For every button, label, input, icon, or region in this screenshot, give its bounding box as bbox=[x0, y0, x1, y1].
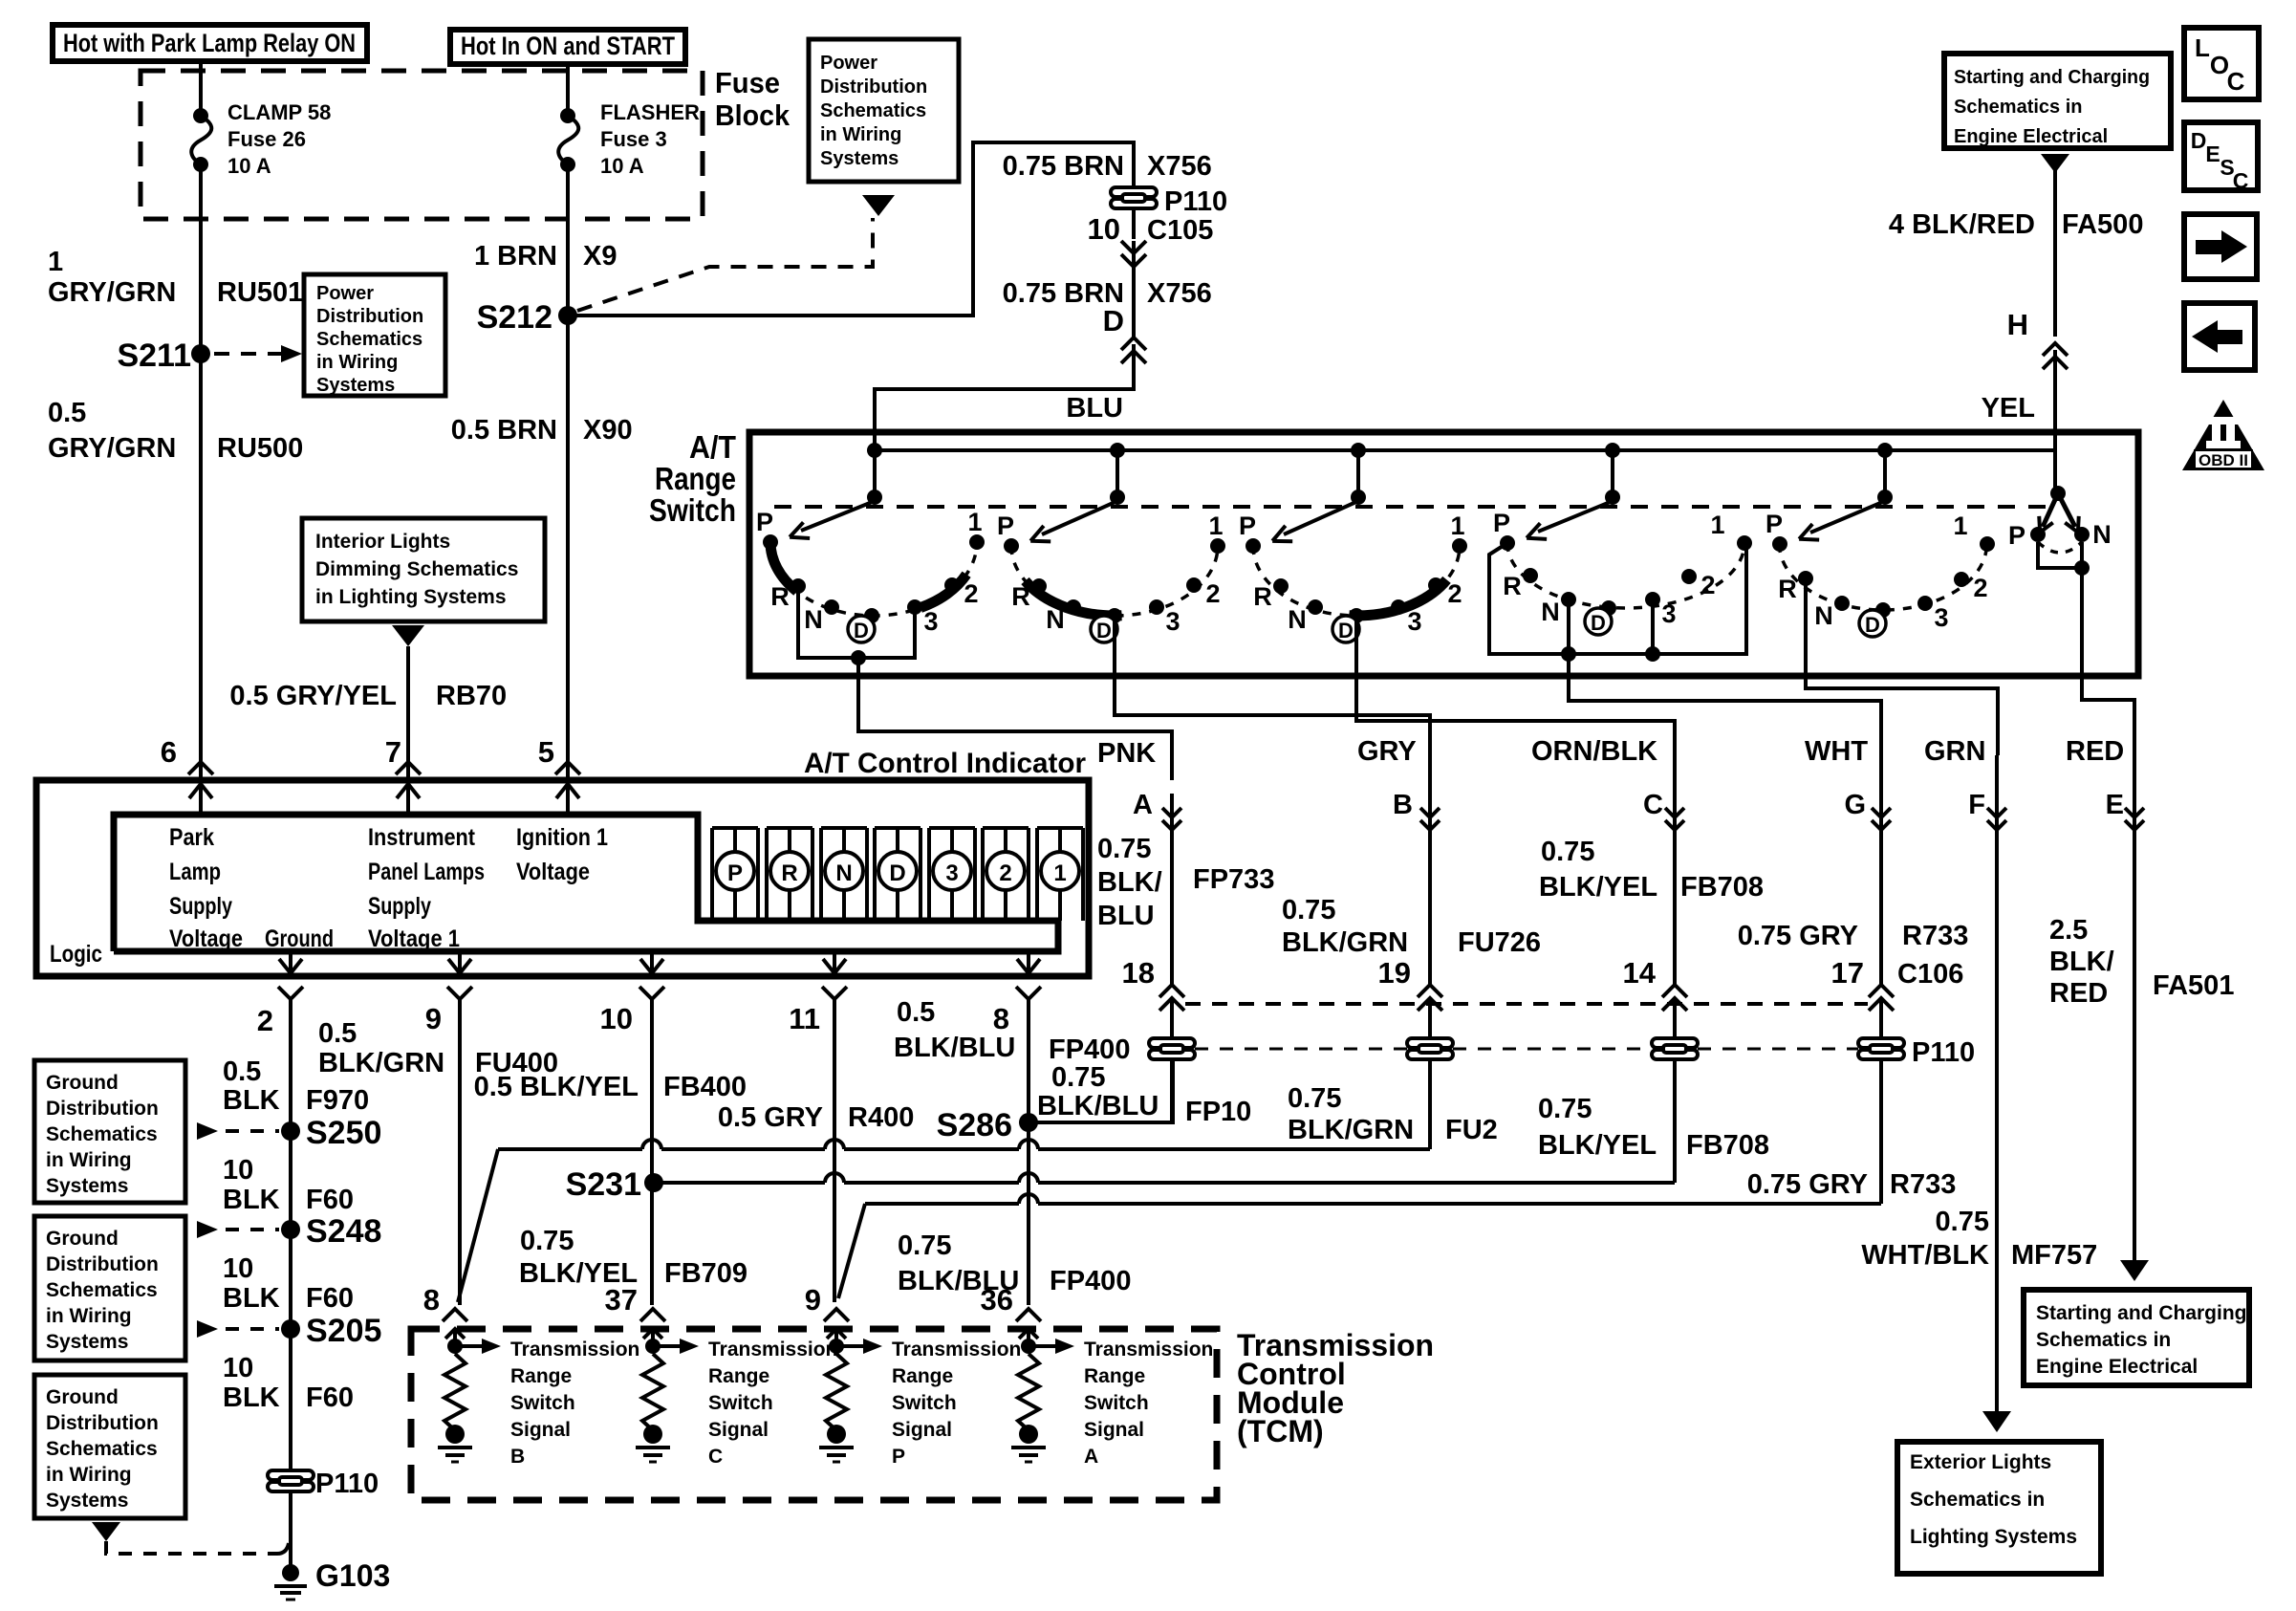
label 0.5 BLK F970 bbox=[223, 1056, 369, 1116]
wire X756 through C105 bbox=[1132, 208, 1136, 239]
svg-text:9: 9 bbox=[425, 1002, 442, 1035]
svg-text:S205: S205 bbox=[306, 1313, 381, 1349]
wire to ground G103 bbox=[289, 1491, 292, 1573]
wire FB708 0.75 BLK/YEL (pin C down to C106) bbox=[1673, 755, 1677, 985]
TCM pin 9 terminal chevron bbox=[824, 1309, 849, 1321]
svg-text:FP10: FP10 bbox=[1185, 1097, 1251, 1127]
svg-text:B: B bbox=[1393, 790, 1413, 820]
pin 2 output arrow bbox=[289, 951, 292, 973]
svg-text:0.75: 0.75 bbox=[1538, 1094, 1592, 1124]
TCM input arrow pin 8 bbox=[453, 1331, 457, 1346]
fuse FLASHER Fuse 3 10A bbox=[558, 116, 578, 164]
svg-text:6: 6 bbox=[161, 735, 177, 769]
svg-text:R: R bbox=[1253, 582, 1272, 611]
svg-text:2.5: 2.5 bbox=[2049, 915, 2088, 946]
svg-text:Switch: Switch bbox=[510, 1392, 575, 1414]
wire from switch 1 to pin A bbox=[858, 678, 1172, 780]
svg-text:Instrument: Instrument bbox=[368, 824, 476, 851]
dashed reference line from S212 to Power Distribution box (top) bbox=[577, 218, 873, 311]
in-line connector chevrons above BLU bbox=[1121, 337, 1146, 350]
svg-text:0.5 BLK/YEL: 0.5 BLK/YEL bbox=[474, 1072, 639, 1102]
resistor (pull) pin 36 bbox=[1018, 1354, 1039, 1430]
svg-text:Range: Range bbox=[510, 1365, 572, 1387]
label 10 BLK F60 (2) bbox=[223, 1253, 354, 1314]
svg-text:in Wiring: in Wiring bbox=[46, 1149, 132, 1171]
bulkhead connector P110 on X756 bbox=[1111, 187, 1157, 208]
TCM input arrow pin 37 bbox=[651, 1331, 655, 1346]
wire X90 0.5 BRN (S212 down to indicator pin 5) bbox=[566, 316, 570, 780]
svg-text:Schematics: Schematics bbox=[820, 100, 926, 121]
svg-text:F970: F970 bbox=[306, 1085, 369, 1116]
legend box LOC bbox=[2184, 28, 2259, 99]
pin 8 output arrow bbox=[1027, 951, 1030, 973]
TCM pin 8 terminal chevron bbox=[443, 1309, 467, 1321]
svg-text:BLK/: BLK/ bbox=[2049, 947, 2114, 977]
signal tap arrow pin 36 bbox=[1021, 1339, 1036, 1354]
svg-text:P: P bbox=[892, 1446, 905, 1468]
svg-text:P110: P110 bbox=[1164, 186, 1227, 217]
svg-text:FB709: FB709 bbox=[664, 1258, 747, 1289]
svg-text:Schematics: Schematics bbox=[46, 1123, 158, 1145]
svg-text:Ground: Ground bbox=[46, 1386, 119, 1408]
pin 9 output arrow bbox=[458, 951, 462, 973]
svg-text:N: N bbox=[835, 860, 852, 886]
svg-text:G: G bbox=[1844, 790, 1866, 820]
wire FP10 0.75 BLK/BLU (S286 to P110 riser) bbox=[1029, 1058, 1173, 1122]
pin 6 terminal chevron bbox=[188, 762, 213, 774]
svg-text:P110: P110 bbox=[1912, 1037, 1975, 1068]
wire FU726 0.75 BLK/GRN (pin B down to C106) bbox=[1428, 755, 1432, 985]
svg-text:9: 9 bbox=[805, 1283, 821, 1317]
svg-text:P: P bbox=[1239, 512, 1256, 540]
wire from Hot In feed into fuse block (right) bbox=[566, 61, 570, 116]
pin 8 terminal chevron bbox=[1016, 987, 1041, 999]
dashed reference arrow to S205 bbox=[197, 1320, 218, 1338]
svg-text:R400: R400 bbox=[848, 1102, 914, 1133]
label Park Lamp Supply Voltage bbox=[169, 824, 243, 952]
svg-text:GRN: GRN bbox=[1924, 736, 1985, 767]
svg-text:Schematics in: Schematics in bbox=[2036, 1329, 2171, 1351]
wire RB70 0.5 GRY/YEL (down to indicator pin 7) bbox=[406, 646, 410, 780]
label Transmission Range Switch Signal B bbox=[510, 1339, 639, 1468]
reference arrow into Power Distribution box (top) bbox=[862, 195, 895, 216]
svg-text:0.75: 0.75 bbox=[1051, 1062, 1105, 1093]
splice S212 bbox=[558, 306, 577, 325]
svg-text:2: 2 bbox=[257, 1004, 273, 1037]
splice S231 bbox=[644, 1173, 663, 1192]
bulkhead connector P110 on ground wire bbox=[268, 1470, 314, 1491]
connector C106 chevron pin 18 bbox=[1159, 985, 1184, 997]
pin 10 output arrow bbox=[650, 951, 654, 973]
svg-text:A: A bbox=[1084, 1446, 1098, 1468]
svg-text:Ground: Ground bbox=[265, 925, 334, 952]
svg-text:BLK: BLK bbox=[223, 1283, 280, 1314]
label A/T Range Switch bbox=[649, 429, 736, 528]
svg-text:RU501: RU501 bbox=[217, 277, 303, 308]
label 1 GRY/GRN RU501 bbox=[48, 247, 303, 308]
A/T Control Indicator outer box bbox=[36, 780, 1089, 976]
svg-text:S248: S248 bbox=[306, 1213, 381, 1250]
svg-text:11: 11 bbox=[789, 1002, 820, 1035]
svg-text:P: P bbox=[2008, 521, 2025, 550]
label Transmission Range Switch Signal C bbox=[708, 1339, 837, 1468]
TCM internal ground pin 9 bbox=[827, 1425, 846, 1444]
pin 11 terminal chevron bbox=[822, 987, 847, 999]
svg-text:14: 14 bbox=[1623, 956, 1657, 990]
reference arrow from Ground box 3 bbox=[92, 1522, 120, 1541]
svg-text:YEL: YEL bbox=[1982, 393, 2035, 424]
svg-text:0.75: 0.75 bbox=[1288, 1083, 1341, 1114]
splice S211 bbox=[191, 344, 210, 363]
label 0.75 GRY R733 (pin G) bbox=[1738, 921, 1969, 951]
Transmission Control Module dashed box bbox=[411, 1329, 1217, 1500]
svg-text:0.75 BRN: 0.75 BRN bbox=[1003, 151, 1124, 182]
svg-text:Switch: Switch bbox=[649, 492, 736, 528]
svg-text:Block: Block bbox=[715, 98, 791, 132]
svg-text:19: 19 bbox=[1378, 956, 1411, 990]
label 0.5 BLK/BLU FP400 bbox=[894, 997, 1130, 1065]
svg-text:R: R bbox=[1503, 572, 1522, 600]
svg-text:10 A: 10 A bbox=[600, 154, 644, 178]
svg-text:Transmission: Transmission bbox=[1084, 1339, 1213, 1361]
svg-text:Hot with Park Lamp Relay ON: Hot with Park Lamp Relay ON bbox=[63, 29, 356, 57]
svg-text:N: N bbox=[1541, 598, 1560, 626]
indicator logic inner box bbox=[114, 815, 1058, 951]
svg-text:Transmission: Transmission bbox=[510, 1339, 639, 1361]
connector C106 chevron pin 17 bbox=[1869, 985, 1894, 997]
svg-text:D: D bbox=[1096, 619, 1112, 642]
fuse CLAMP 58 Fuse 26 10A bbox=[191, 116, 211, 164]
svg-text:FP400: FP400 bbox=[1049, 1034, 1130, 1065]
label RED pin E bbox=[2066, 736, 2124, 820]
svg-text:C: C bbox=[1643, 790, 1663, 820]
svg-text:A/T Control Indicator: A/T Control Indicator bbox=[804, 748, 1086, 779]
reference box: Ground Distribution Schematics in Wiring Systems (2) bbox=[34, 1216, 185, 1361]
pin 7 input arrow bbox=[406, 784, 410, 815]
svg-text:FU2: FU2 bbox=[1445, 1115, 1498, 1145]
label 0.5 BRN X90 bbox=[451, 415, 633, 446]
signal tap arrow pin 9 bbox=[829, 1339, 844, 1354]
svg-text:X756: X756 bbox=[1147, 151, 1212, 182]
svg-text:X756: X756 bbox=[1147, 278, 1212, 309]
svg-text:BLK/YEL: BLK/YEL bbox=[1538, 1130, 1657, 1161]
pin 5 terminal chevron bbox=[555, 762, 580, 774]
svg-text:FU726: FU726 bbox=[1458, 927, 1541, 958]
wire FP733 0.75 BLK/BLU (pin A down to C106) bbox=[1170, 794, 1174, 985]
svg-text:BLK: BLK bbox=[223, 1085, 280, 1116]
switch linkage dashed line bbox=[774, 505, 2050, 509]
label 0.75 BLK/GRN FU2 bbox=[1288, 1083, 1498, 1145]
splice S250 bbox=[281, 1121, 300, 1141]
label 0.75 BRN X756 (above P110) bbox=[1003, 151, 1212, 182]
svg-text:0.5 GRY/YEL: 0.5 GRY/YEL bbox=[229, 681, 397, 711]
wire from Hot feed into fuse block (left) bbox=[199, 61, 203, 116]
svg-text:3: 3 bbox=[1407, 607, 1421, 636]
svg-text:BLK/: BLK/ bbox=[1097, 867, 1162, 898]
svg-text:GRY/GRN: GRY/GRN bbox=[48, 277, 176, 308]
svg-text:in Wiring: in Wiring bbox=[820, 124, 901, 145]
svg-text:0.75: 0.75 bbox=[1541, 837, 1594, 867]
svg-text:Systems: Systems bbox=[316, 375, 395, 396]
switch wafer 1 (P R N D 3 2 1 contacts) bbox=[756, 443, 985, 642]
label ORN/BLK pin C bbox=[1531, 736, 1663, 820]
svg-text:Transmission: Transmission bbox=[708, 1339, 837, 1361]
label Fuse Block bbox=[715, 66, 791, 132]
wire R400 0.5 GRY (pin 11 to TCM pin 9) bbox=[833, 999, 836, 1302]
svg-text:Dimming Schematics: Dimming Schematics bbox=[315, 558, 518, 580]
svg-text:0.75: 0.75 bbox=[898, 1230, 951, 1261]
svg-text:10: 10 bbox=[223, 1353, 253, 1383]
svg-text:Systems: Systems bbox=[46, 1175, 128, 1197]
pin 11 output arrow bbox=[833, 951, 836, 973]
svg-text:2: 2 bbox=[1447, 579, 1462, 608]
svg-text:18: 18 bbox=[1122, 956, 1155, 990]
reference box: Interior Lights Dimming Schematics in Lighting Systems bbox=[302, 518, 545, 621]
reference box: Exterior Lights Schematics in Lighting Systems bbox=[1897, 1442, 2101, 1574]
connector P110 dashed line bbox=[1195, 1048, 1407, 1051]
reference box: Starting and Charging Schematics in Engine Electrical (bottom) bbox=[2024, 1290, 2249, 1385]
svg-text:2: 2 bbox=[1700, 571, 1715, 599]
label WHT pin G bbox=[1805, 736, 1868, 820]
svg-text:1: 1 bbox=[1053, 860, 1066, 886]
svg-text:Schematics in: Schematics in bbox=[1954, 97, 2083, 118]
svg-text:8: 8 bbox=[993, 1002, 1009, 1035]
label Ignition 1 Voltage bbox=[516, 824, 608, 885]
svg-text:10: 10 bbox=[223, 1253, 253, 1284]
svg-text:Distribution: Distribution bbox=[316, 306, 423, 327]
svg-text:FP400: FP400 bbox=[1050, 1266, 1131, 1296]
svg-text:Ground: Ground bbox=[46, 1228, 119, 1250]
wire F60 10 BLK (S205 to P110) bbox=[289, 1329, 292, 1470]
svg-text:C106: C106 bbox=[1897, 959, 1963, 990]
svg-text:5: 5 bbox=[538, 735, 554, 769]
switch wafer 4 (P R N D 3 2 1 contacts) bbox=[1493, 443, 1752, 635]
svg-text:in Lighting Systems: in Lighting Systems bbox=[315, 586, 507, 608]
label 0.5 GRY/GRN RU500 bbox=[48, 398, 303, 464]
svg-text:X90: X90 bbox=[583, 415, 633, 446]
svg-text:Systems: Systems bbox=[46, 1331, 128, 1353]
svg-text:E: E bbox=[2106, 790, 2124, 820]
svg-text:Starting and Charging: Starting and Charging bbox=[1954, 67, 2150, 88]
arrow into Exterior Lights box bbox=[1982, 1411, 2011, 1432]
svg-text:H: H bbox=[2007, 308, 2028, 341]
svg-text:FA501: FA501 bbox=[2153, 970, 2234, 1001]
svg-text:A/T: A/T bbox=[689, 429, 736, 465]
svg-text:Range: Range bbox=[1084, 1365, 1145, 1387]
svg-text:Power: Power bbox=[316, 283, 374, 304]
label 0.75 BLK/BLU FP400 (lower) bbox=[898, 1230, 1131, 1296]
svg-text:Range: Range bbox=[708, 1365, 769, 1387]
reference arrow from Interior Lights box bbox=[392, 625, 424, 646]
svg-text:Signal: Signal bbox=[708, 1419, 769, 1441]
resistor (pull) pin 37 bbox=[642, 1354, 663, 1430]
svg-text:R: R bbox=[770, 582, 790, 611]
svg-text:CLAMP 58: CLAMP 58 bbox=[227, 100, 331, 124]
TCM input arrow pin 36 bbox=[1027, 1331, 1030, 1346]
svg-text:WHT: WHT bbox=[1805, 736, 1868, 767]
svg-text:0.75: 0.75 bbox=[1936, 1207, 1989, 1237]
wire FB709 0.75 BLK/YEL (S231 to TCM pin 37) bbox=[650, 1183, 654, 1305]
svg-text:Systems: Systems bbox=[46, 1490, 128, 1512]
label Transmission Control Module (TCM) bbox=[1237, 1328, 1434, 1448]
label Instrument Panel Lamps Supply Voltage 1 bbox=[368, 824, 485, 952]
svg-text:Starting and Charging: Starting and Charging bbox=[2036, 1302, 2247, 1324]
switch 4 internal tie (P,1,3 bracket and N drop) bbox=[1489, 543, 1746, 654]
ground G103 bbox=[282, 1564, 299, 1581]
svg-text:RED: RED bbox=[2066, 736, 2124, 767]
svg-text:Range: Range bbox=[892, 1365, 953, 1387]
svg-text:Lighting Systems: Lighting Systems bbox=[1910, 1526, 2077, 1548]
resistor (pull) pin 8 bbox=[444, 1354, 466, 1430]
svg-text:S212: S212 bbox=[477, 299, 552, 336]
wire R733 0.75 GRY (pin G net over to TCM pin 9) bbox=[865, 1202, 1019, 1206]
label Transmission Range Switch Signal A bbox=[1084, 1339, 1213, 1468]
svg-text:0.5: 0.5 bbox=[897, 997, 935, 1028]
svg-text:OBD II: OBD II bbox=[2199, 451, 2248, 469]
svg-text:2: 2 bbox=[1205, 579, 1220, 608]
svg-text:N: N bbox=[804, 605, 823, 634]
svg-text:0.5 BRN: 0.5 BRN bbox=[451, 415, 557, 446]
svg-text:0.75: 0.75 bbox=[1097, 834, 1151, 864]
A/T Range Switch outline box bbox=[749, 432, 2138, 676]
svg-text:Park: Park bbox=[169, 824, 214, 851]
svg-text:FB708: FB708 bbox=[1680, 872, 1764, 903]
TCM internal ground pin 8 bbox=[445, 1425, 465, 1444]
svg-text:D: D bbox=[1865, 613, 1880, 637]
splice S205 bbox=[281, 1319, 300, 1339]
svg-text:P: P bbox=[727, 860, 743, 886]
svg-text:S211: S211 bbox=[117, 337, 191, 374]
switch wafer 2 (P R N D 3 2 1 contacts) bbox=[997, 443, 1225, 642]
svg-text:FA500: FA500 bbox=[2062, 209, 2143, 240]
svg-text:0.5: 0.5 bbox=[318, 1018, 357, 1049]
svg-text:BLK/YEL: BLK/YEL bbox=[1539, 872, 1657, 903]
wire YEL (H down into range switch box) bbox=[2053, 350, 2057, 450]
svg-text:10: 10 bbox=[600, 1002, 633, 1035]
svg-text:in Wiring: in Wiring bbox=[316, 352, 398, 373]
svg-text:Schematics: Schematics bbox=[316, 329, 422, 350]
svg-text:N: N bbox=[1046, 605, 1065, 634]
svg-text:WHT/BLK: WHT/BLK bbox=[1861, 1240, 1989, 1271]
svg-text:Schematics: Schematics bbox=[46, 1438, 158, 1460]
svg-text:Panel Lamps: Panel Lamps bbox=[368, 859, 485, 885]
svg-text:Switch: Switch bbox=[892, 1392, 957, 1414]
svg-text:F: F bbox=[1968, 790, 1985, 820]
svg-text:1: 1 bbox=[1710, 511, 1724, 539]
dashed reference arrow to S248 bbox=[197, 1221, 218, 1238]
svg-text:Schematics: Schematics bbox=[46, 1279, 158, 1301]
svg-text:0.5 GRY: 0.5 GRY bbox=[718, 1102, 823, 1133]
svg-text:P: P bbox=[756, 508, 773, 536]
svg-text:0.5: 0.5 bbox=[48, 398, 86, 428]
wire FU2 through P110 on pin B bbox=[1407, 1038, 1453, 1059]
label 0.5 GRY/YEL RB70 bbox=[229, 681, 507, 711]
svg-text:BLU: BLU bbox=[1066, 393, 1123, 424]
wire from switch 2 to pin B bbox=[1115, 678, 1430, 755]
svg-text:F60: F60 bbox=[306, 1283, 354, 1314]
svg-text:1: 1 bbox=[1450, 512, 1464, 540]
svg-text:G103: G103 bbox=[315, 1558, 390, 1593]
switch common bus wire bbox=[875, 448, 2055, 452]
svg-text:Distribution: Distribution bbox=[46, 1412, 159, 1434]
switch 3 internal drop from D bbox=[1354, 616, 1358, 678]
pin 7 terminal chevron bbox=[396, 762, 421, 774]
P/N switch output wire to pin E bbox=[2082, 568, 2134, 727]
reference box: Power Distribution Schematics in Wiring Systems (left) bbox=[304, 274, 445, 396]
svg-text:Engine Electrical: Engine Electrical bbox=[2036, 1356, 2198, 1378]
switch wafer 3 (P R N D 3 2 1 contacts) bbox=[1239, 443, 1467, 642]
wire FU2 0.75 BLK/GRN (pin B net over to TCM pin 8) bbox=[498, 1147, 642, 1151]
svg-text:MF757: MF757 bbox=[2011, 1240, 2097, 1271]
svg-text:P: P bbox=[1493, 509, 1510, 537]
P/N auxiliary switch feed wire (from bus corner down) bbox=[2053, 450, 2057, 491]
label 0.75 GRY R733 (lower) bbox=[1747, 1169, 1957, 1200]
connector chevrons pin F bbox=[1987, 808, 2006, 817]
label 10 BLK F60 (3) bbox=[223, 1353, 354, 1413]
svg-text:R: R bbox=[781, 860, 797, 886]
reference arrow into Starting and Charging box bbox=[2041, 154, 2069, 173]
wire F60 10 BLK (S248 to S205) bbox=[289, 1230, 292, 1329]
svg-text:BLK/BLU: BLK/BLU bbox=[894, 1033, 1015, 1063]
in-line connector C105 chevrons bbox=[1121, 241, 1146, 253]
wire FA501 2.5 BLK/RED (pin E down to Starting and Charging) bbox=[2133, 727, 2136, 1260]
switch 1 internal tie (R,3 to output rail) bbox=[798, 586, 915, 658]
label 0.5 GRY R400 bbox=[718, 1102, 914, 1133]
svg-text:Transmission: Transmission bbox=[892, 1339, 1021, 1361]
svg-text:N: N bbox=[1814, 601, 1833, 630]
wire R733 0.75 GRY (pin G down to C106) bbox=[1879, 755, 1883, 985]
svg-text:D: D bbox=[1591, 611, 1606, 635]
svg-text:Logic: Logic bbox=[50, 941, 102, 968]
pin 5 input arrow bbox=[566, 784, 570, 815]
wire RU501 1 GRY/GRN (fuse 26 down to S211) bbox=[199, 164, 203, 354]
switch 2 internal drop from D bbox=[1113, 616, 1116, 678]
svg-text:D: D bbox=[2191, 128, 2207, 153]
svg-text:1: 1 bbox=[967, 508, 982, 536]
wire BLU (down to A/T range switch bus) bbox=[875, 344, 1134, 450]
svg-text:Voltage: Voltage bbox=[169, 925, 243, 952]
svg-text:(TCM): (TCM) bbox=[1237, 1414, 1324, 1448]
svg-text:P: P bbox=[1765, 510, 1783, 538]
svg-text:Exterior Lights: Exterior Lights bbox=[1910, 1451, 2051, 1473]
svg-text:BLK/BLU: BLK/BLU bbox=[1037, 1091, 1159, 1121]
reference box: Starting and Charging Schematics in Engine Electrical (top) bbox=[1944, 54, 2171, 148]
svg-text:N: N bbox=[1288, 605, 1307, 634]
wire F60 10 BLK (S250 to S248) bbox=[289, 1131, 292, 1230]
svg-text:1: 1 bbox=[48, 247, 63, 277]
svg-text:P110: P110 bbox=[315, 1469, 379, 1499]
svg-text:10: 10 bbox=[1088, 212, 1120, 246]
svg-text:FLASHER: FLASHER bbox=[600, 100, 700, 124]
wire FB400 0.5 BLK/YEL (pin 10 to S231) bbox=[650, 999, 654, 1183]
fuse block dashed outline bbox=[141, 71, 703, 219]
svg-text:D: D bbox=[889, 860, 905, 886]
svg-text:Lamp: Lamp bbox=[169, 859, 221, 885]
svg-text:Voltage: Voltage bbox=[516, 859, 590, 885]
label 10 BLK F60 (1) bbox=[223, 1155, 354, 1215]
TCM internal ground pin 36 bbox=[1019, 1425, 1038, 1444]
label 0.5 BLK/GRN FU400 bbox=[318, 1018, 558, 1078]
svg-text:FB400: FB400 bbox=[663, 1072, 747, 1102]
wire X756 0.75 BRN (S212 right, up and over to C105) bbox=[568, 142, 1134, 316]
svg-text:BLK/GRN: BLK/GRN bbox=[1288, 1115, 1414, 1145]
svg-text:C: C bbox=[2233, 168, 2249, 193]
TCM internal ground pin 37 bbox=[643, 1425, 662, 1444]
legend box left-arrow bbox=[2184, 303, 2255, 370]
pin 6 input arrow bbox=[199, 784, 203, 815]
label CLAMP 58 / Fuse 26 / 10 A bbox=[227, 100, 331, 178]
svg-text:RU500: RU500 bbox=[217, 433, 303, 464]
